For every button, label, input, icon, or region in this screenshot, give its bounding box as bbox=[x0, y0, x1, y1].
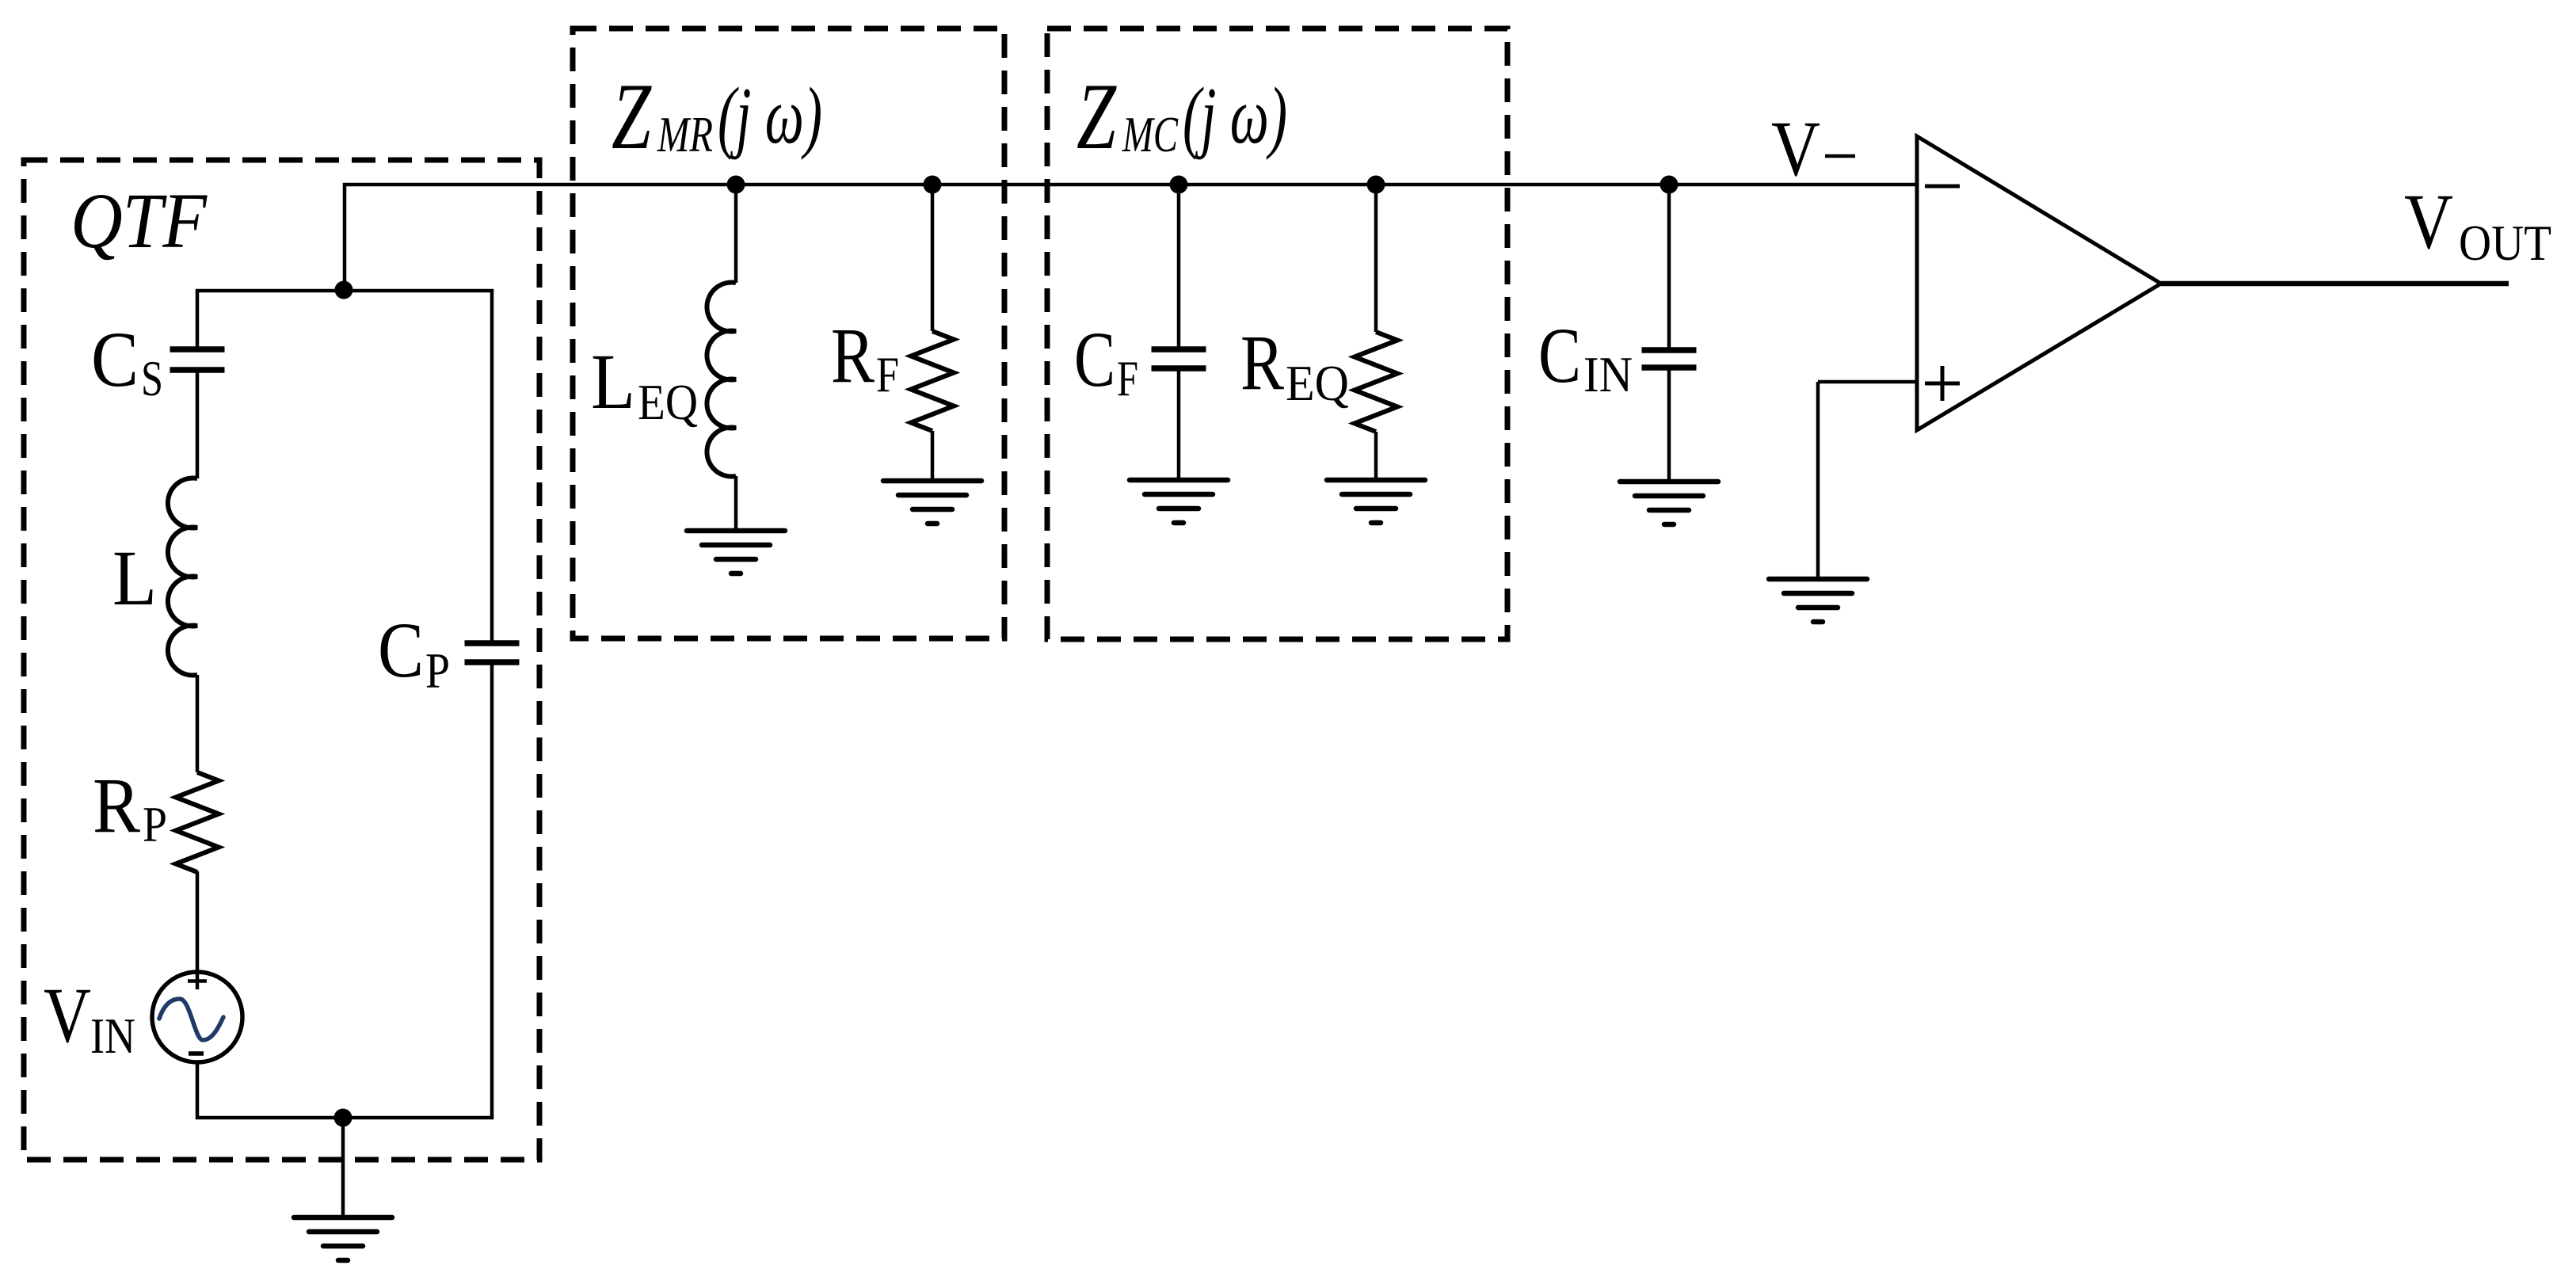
svg-text:S: S bbox=[141, 350, 163, 406]
svg-text:Z: Z bbox=[1077, 63, 1117, 169]
svg-text:MC: MC bbox=[1122, 106, 1179, 162]
svg-text:R: R bbox=[831, 311, 875, 399]
svg-text:EQ: EQ bbox=[638, 374, 698, 430]
svg-text:F: F bbox=[876, 346, 899, 402]
svg-text:L: L bbox=[591, 337, 635, 425]
svg-text:QTF: QTF bbox=[70, 177, 208, 265]
svg-text:OUT: OUT bbox=[2459, 215, 2551, 271]
svg-text:F: F bbox=[1117, 350, 1138, 406]
svg-text:C: C bbox=[378, 606, 424, 694]
svg-text:MR: MR bbox=[657, 106, 713, 162]
svg-text:P: P bbox=[425, 642, 450, 699]
svg-text:C: C bbox=[1538, 311, 1581, 399]
svg-text:IN: IN bbox=[1583, 346, 1633, 402]
svg-text:C: C bbox=[91, 315, 139, 403]
svg-text:R: R bbox=[1240, 318, 1284, 406]
svg-text:V: V bbox=[2404, 177, 2453, 265]
svg-text:(j ω): (j ω) bbox=[718, 71, 822, 161]
svg-text:(j ω): (j ω) bbox=[1183, 71, 1287, 161]
svg-text:IN: IN bbox=[90, 1008, 135, 1064]
svg-text:V: V bbox=[44, 971, 91, 1059]
svg-text:EQ: EQ bbox=[1286, 355, 1349, 411]
svg-text:P: P bbox=[143, 796, 167, 852]
svg-text:V: V bbox=[1771, 105, 1820, 192]
svg-text:L: L bbox=[112, 534, 157, 622]
svg-text:R: R bbox=[93, 761, 140, 849]
svg-text:Z: Z bbox=[612, 63, 652, 169]
svg-text:C: C bbox=[1074, 315, 1115, 403]
